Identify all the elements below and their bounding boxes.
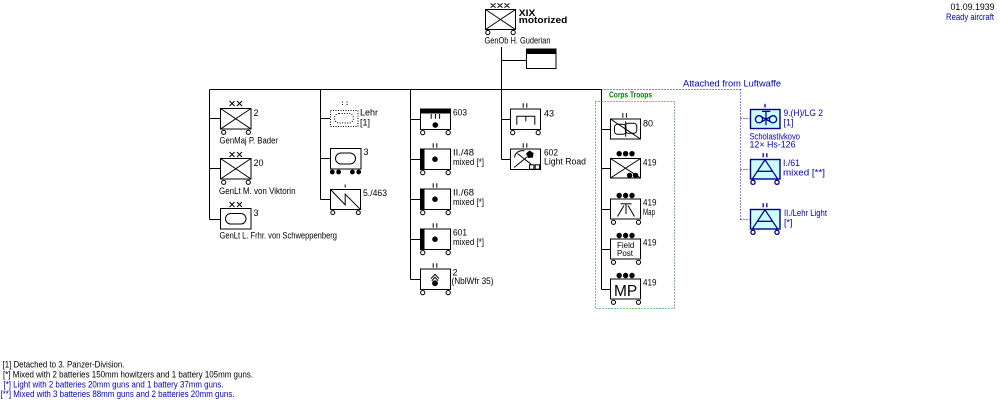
unit artillery battalion 601: [421, 223, 451, 255]
svg-text:[1]: [1]: [784, 117, 794, 127]
svg-text:I./61: I./61: [783, 158, 800, 168]
wire stub to field post: [602, 249, 611, 251]
svg-text:motorized: motorized: [519, 15, 568, 26]
svg-text:419: 419: [643, 238, 657, 248]
unit bridging battalion 43: [511, 103, 541, 135]
unit artillery battalion II./48: [421, 143, 451, 175]
wire stub to 419 supply: [602, 168, 611, 170]
unit nebelwerfer battalion 2: [421, 263, 451, 295]
svg-text:419: 419: [643, 198, 657, 208]
unit Lehr dotted panzer battalion: [331, 102, 359, 127]
unit map detachment 419: [611, 193, 641, 224]
wire stub to Pz3: [321, 158, 331, 160]
svg-text:mixed [*]: mixed [*]: [453, 157, 484, 167]
unit motorized infantry division 20 (Viktorin): [221, 152, 252, 184]
svg-text:[1]: [1]: [360, 117, 370, 127]
svg-text:Post: Post: [617, 249, 634, 258]
svg-text:419: 419: [643, 278, 657, 288]
svg-text:GenMaj P. Bader: GenMaj P. Bader: [220, 136, 279, 146]
svg-text:[*]: [*]: [784, 218, 793, 228]
svg-text:Attached from Luftwaffe: Attached from Luftwaffe: [683, 79, 781, 89]
wire HQ stub: [502, 60, 527, 62]
wire stub to division 3: [210, 219, 221, 221]
svg-text:419: 419: [643, 158, 657, 168]
unit XIX corps HQ symbol: [486, 3, 516, 34]
unit flak battalion I./61: [751, 153, 781, 184]
wire stub to division 2: [210, 118, 221, 120]
svg-text:Map: Map: [643, 207, 655, 217]
svg-text:[*] Mixed with 2 batteries 150: [*] Mixed with 2 batteries 150mm howitze…: [3, 369, 253, 379]
unit panzer battalion 3: [330, 149, 361, 174]
wire stub to 601: [411, 239, 421, 241]
unit motorized infantry division 2 (Bader): [221, 101, 252, 134]
wire stub to 5./463: [321, 199, 331, 201]
corps troops dotted group box: [596, 102, 675, 309]
svg-text:II./48: II./48: [453, 148, 474, 158]
wire stub to II./48: [411, 159, 421, 161]
wire stub to 80: [602, 129, 611, 131]
unit corps HQ staff box: [527, 49, 557, 69]
wire stub to 419 map: [602, 209, 611, 211]
svg-text:3: 3: [254, 208, 259, 218]
wire stub to division 20: [210, 168, 221, 170]
svg-text:20: 20: [254, 158, 264, 168]
svg-text:II./Lehr Light: II./Lehr Light: [784, 208, 827, 218]
svg-text:603: 603: [453, 108, 467, 118]
svg-text:[**] Mixed with 3 batteries 88: [**] Mixed with 3 batteries 88mm guns an…: [1, 389, 235, 399]
wire column3 vertical: [410, 90, 412, 280]
svg-text:2: 2: [254, 108, 259, 118]
svg-text:5./463: 5./463: [363, 188, 387, 198]
svg-text:9.(H)/LG 2: 9.(H)/LG 2: [784, 108, 824, 118]
wire stub to 603: [411, 119, 421, 121]
unit signal battalion 80: [611, 113, 641, 139]
wire stub to Lehr: [321, 118, 331, 120]
wire corps troops trunk: [601, 90, 603, 290]
unit artillery regiment staff 603: [421, 109, 451, 135]
svg-text:43: 43: [544, 108, 554, 118]
svg-text:12× Hs-126: 12× Hs-126: [750, 139, 796, 149]
wire stub to MP: [602, 289, 611, 291]
svg-text:Light Road: Light Road: [544, 157, 586, 167]
svg-text:Corps Troops: Corps Troops: [609, 90, 652, 100]
wire dotted luftwaffe bus: [602, 90, 751, 220]
unit field post 419: [611, 233, 641, 264]
svg-text:3: 3: [364, 147, 369, 157]
svg-text:mixed [*]: mixed [*]: [453, 197, 484, 207]
unit supply troops 419: [611, 152, 641, 179]
wire corps vertical: [501, 47, 503, 160]
svg-text:II./68: II./68: [453, 188, 474, 198]
unit flak battalion II./Lehr: [751, 203, 781, 234]
wire stub to 602: [502, 159, 511, 161]
svg-text:80: 80: [643, 118, 653, 128]
svg-text:Lehr: Lehr: [360, 107, 378, 117]
unit panzer division 3 (Schweppenberg): [221, 202, 252, 229]
svg-text:01.09.1939: 01.09.1939: [951, 2, 995, 12]
wire column2 vertical: [320, 90, 322, 200]
wire stub to 43: [502, 119, 511, 121]
svg-text:mixed [**]: mixed [**]: [783, 168, 825, 178]
svg-text:601: 601: [453, 228, 467, 238]
unit reconnaissance squadron 9.(H)/LG 2: [751, 104, 781, 129]
wire stub to II./68: [411, 199, 421, 201]
unit artillery battalion II./68: [421, 183, 451, 215]
unit road construction battalion 602: [511, 143, 541, 169]
svg-text:GenLt M. von Viktorin: GenLt M. von Viktorin: [219, 186, 296, 196]
svg-text:GenOb H. Guderian: GenOb H. Guderian: [485, 35, 551, 45]
svg-text:mixed [*]: mixed [*]: [453, 237, 484, 247]
unit 5./463 battery: [331, 185, 361, 215]
unit military police 419: [611, 273, 641, 304]
svg-text:GenLt L. Frhr. von Schweppenb: GenLt L. Frhr. von Schweppenberg: [220, 231, 338, 241]
svg-text:[*] Light with 2 batteries 20m: [*] Light with 2 batteries 20mm guns and…: [4, 380, 224, 390]
wire left column vertical: [209, 90, 211, 220]
svg-text:MP: MP: [614, 283, 637, 300]
wire stub to NblWfr: [411, 279, 421, 281]
svg-text:Ready aircraft: Ready aircraft: [946, 12, 994, 22]
wire main bus: [210, 47, 611, 290]
svg-text:[1] Detached to 3. Panzer-Divi: [1] Detached to 3. Panzer-Division.: [3, 360, 125, 370]
svg-text:(NblWfr 35): (NblWfr 35): [452, 276, 494, 286]
